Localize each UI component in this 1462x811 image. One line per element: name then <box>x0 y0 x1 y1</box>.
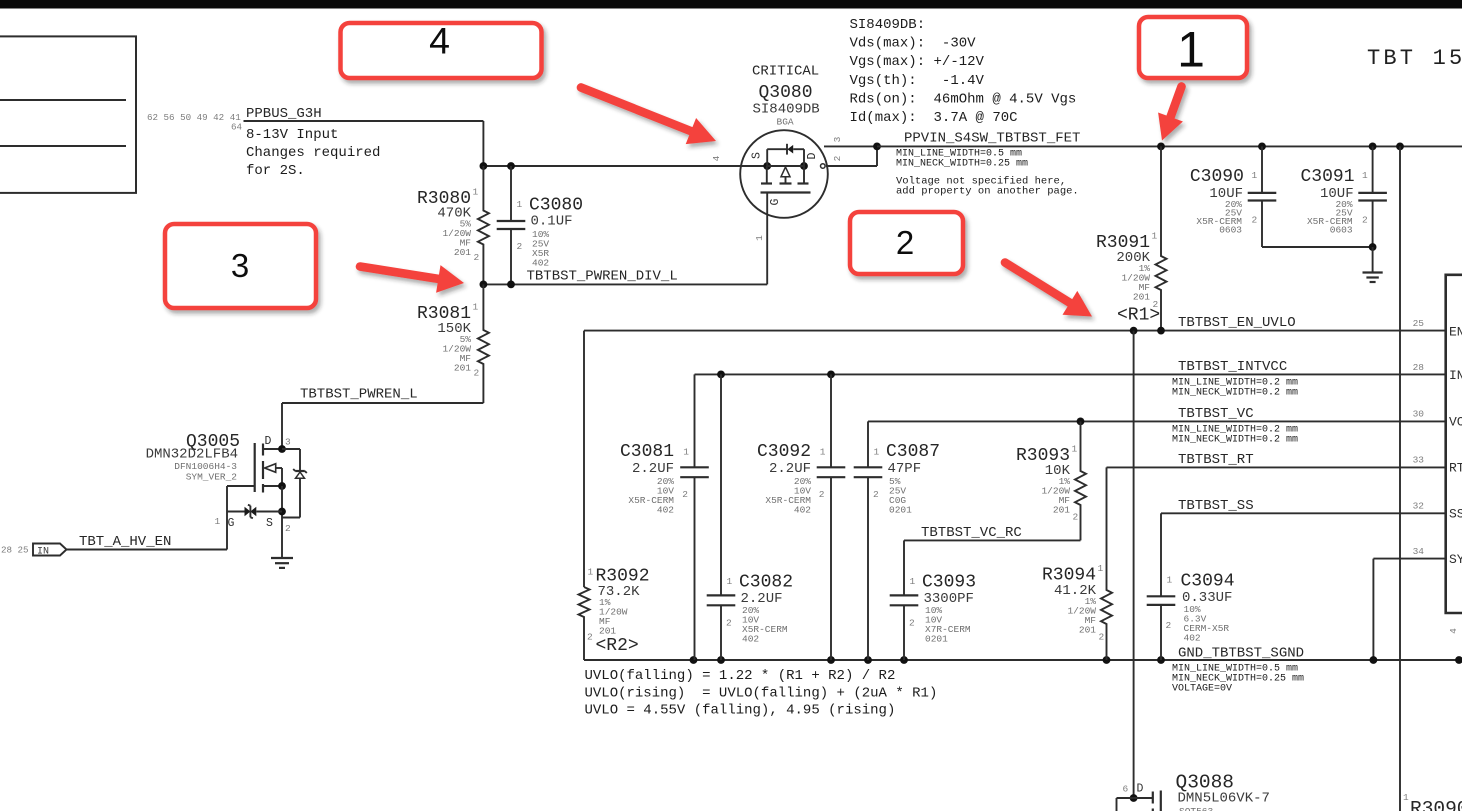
svg-text:PPVIN_S4SW_TBTBST_FET: PPVIN_S4SW_TBTBST_FET <box>904 131 1080 147</box>
junction dot R3091 top <box>1157 143 1165 151</box>
svg-text:2: 2 <box>285 523 291 534</box>
svg-text:2: 2 <box>726 618 732 629</box>
svg-text:1: 1 <box>910 576 916 587</box>
svg-text:2: 2 <box>1099 632 1105 643</box>
connector box J (left, partial) <box>0 36 136 193</box>
wire TBTBST_RT <box>1107 466 1446 468</box>
svg-text:BGA: BGA <box>777 117 794 128</box>
svg-text:D: D <box>806 152 819 159</box>
wire TBTBST_INTVCC <box>695 373 1446 375</box>
svg-text:1: 1 <box>1072 444 1078 455</box>
svg-text:D: D <box>1137 783 1144 796</box>
svg-text:64: 64 <box>231 122 243 133</box>
capacitor C3093 <box>890 540 976 660</box>
svg-text:SI8409DB: SI8409DB <box>753 102 820 118</box>
svg-text:62 56 50 49 42 41: 62 56 50 49 42 41 <box>147 112 241 123</box>
wire TBTBST_SS <box>1161 512 1446 514</box>
svg-text:G: G <box>769 198 782 205</box>
svg-text:25: 25 <box>1413 318 1425 329</box>
wire PPBUS down to PPVIN node <box>482 121 484 166</box>
svg-text:add property on another page.: add property on another page. <box>896 186 1079 198</box>
junction dot C3082 top <box>717 371 725 379</box>
svg-text:TBTBST_INTVCC: TBTBST_INTVCC <box>1178 359 1287 375</box>
svg-text:VC: VC <box>1449 415 1462 430</box>
svg-text:0.1UF: 0.1UF <box>531 214 573 230</box>
transistor Q3005 <box>227 443 286 558</box>
note UVLO formulas <box>585 668 938 719</box>
wire to ground symbol <box>1372 247 1374 273</box>
title bar <box>0 0 1462 9</box>
svg-text:TBTBST_RT: TBTBST_RT <box>1178 452 1254 468</box>
svg-text:2: 2 <box>474 368 480 379</box>
svg-text:1: 1 <box>1403 792 1409 803</box>
net properties PPVIN <box>896 149 1028 170</box>
svg-text:2: 2 <box>832 155 843 161</box>
note voltage not specified <box>896 176 1079 198</box>
svg-text:201: 201 <box>1079 625 1096 636</box>
capacitor C3081 <box>620 374 709 660</box>
svg-text:2.2UF: 2.2UF <box>769 461 811 477</box>
wire EN_UVLO left leg down <box>583 331 585 587</box>
wire EN riser down to Q3088 <box>1133 331 1135 798</box>
svg-text:TBT_A_HV_EN: TBT_A_HV_EN <box>79 534 171 550</box>
svg-text:34: 34 <box>1413 546 1425 557</box>
Q3005 reference labels <box>146 432 291 534</box>
svg-text:402: 402 <box>657 505 674 516</box>
svg-text:402: 402 <box>532 258 549 269</box>
svg-text:CRITICAL: CRITICAL <box>752 64 819 80</box>
junction dots on SGND rail <box>690 656 1462 664</box>
svg-text:Id(max): 3.7A @ 70C: Id(max): 3.7A @ 70C <box>850 110 1018 126</box>
svg-text:Vds(max): -30V: Vds(max): -30V <box>850 36 977 52</box>
svg-text:MIN_NECK_WIDTH=0.2 mm: MIN_NECK_WIDTH=0.2 mm <box>1172 435 1298 446</box>
svg-text:2: 2 <box>896 224 914 261</box>
svg-text:4: 4 <box>711 155 722 161</box>
junction dot PPVIN_S4SW node <box>873 143 881 151</box>
svg-text:R3090: R3090 <box>1410 798 1462 811</box>
svg-text:D: D <box>265 435 272 448</box>
svg-text:0603: 0603 <box>1219 225 1242 236</box>
svg-text:Vgs(max): +/-12V: Vgs(max): +/-12V <box>850 54 985 70</box>
svg-text:SYM_VER_2: SYM_VER_2 <box>186 472 238 483</box>
svg-text:1: 1 <box>588 567 594 578</box>
Q3080 drain pin open circle <box>821 164 826 169</box>
junction dot cap ground node <box>1369 243 1377 251</box>
svg-text:for 2S.: for 2S. <box>246 163 305 179</box>
svg-text:IN: IN <box>37 547 49 558</box>
svg-text:C3093: C3093 <box>922 573 976 593</box>
capacitor C3087 <box>854 421 940 660</box>
svg-text:28: 28 <box>1413 362 1425 373</box>
capacitor C3090 <box>1190 146 1276 247</box>
callout box 2 <box>850 212 963 274</box>
svg-text:UVLO(rising) = UVLO(falling): UVLO(rising) = UVLO(falling) + (2uA * R1… <box>585 686 938 702</box>
junction dot C3092 top <box>827 371 835 379</box>
svg-text:402: 402 <box>794 505 811 516</box>
svg-text:SI8409DB:: SI8409DB: <box>850 17 926 33</box>
svg-text:2: 2 <box>909 618 915 629</box>
svg-text:201: 201 <box>454 363 471 374</box>
svg-text:201: 201 <box>1053 505 1070 516</box>
svg-text:RT: RT <box>1449 461 1462 476</box>
svg-text:1: 1 <box>473 302 479 313</box>
svg-text:PPBUS_G3H: PPBUS_G3H <box>246 106 322 122</box>
svg-text:2: 2 <box>587 632 593 643</box>
capacitor C3080 <box>497 166 583 284</box>
zener gate-source of Q3005 <box>227 505 282 519</box>
svg-text:0201: 0201 <box>889 505 912 516</box>
input port TBT_A_HV_EN <box>1 534 227 558</box>
svg-text:C3092: C3092 <box>757 442 811 462</box>
svg-text:30: 30 <box>1413 409 1425 420</box>
callout arrow 2 <box>1005 263 1092 317</box>
svg-text:4: 4 <box>429 20 450 62</box>
transistor Q3088 (partial at bottom) <box>1117 772 1270 811</box>
svg-text:VOLTAGE=0V: VOLTAGE=0V <box>1172 684 1232 695</box>
wire TBTBST_PWREN_DIV_L <box>483 283 767 285</box>
svg-text:1: 1 <box>473 187 479 198</box>
svg-text:1: 1 <box>820 447 826 458</box>
note SI8409DB specs <box>850 17 1077 126</box>
svg-text:UVLO(falling) = 1.22 * (R1 + R: UVLO(falling) = 1.22 * (R1 + R2) / R2 <box>585 668 896 684</box>
svg-text:2: 2 <box>1166 620 1172 631</box>
svg-text:<R1>: <R1> <box>1117 306 1160 326</box>
svg-text:TBTBST_PWREN_DIV_L: TBTBST_PWREN_DIV_L <box>527 269 678 285</box>
svg-text:0201: 0201 <box>925 634 948 645</box>
net properties SGND <box>1172 664 1304 695</box>
junction dot at R3080 top <box>480 162 488 170</box>
svg-text:32: 32 <box>1413 501 1425 512</box>
svg-text:S: S <box>266 517 273 530</box>
junction dot right riser top <box>1396 143 1404 151</box>
svg-text:C3094: C3094 <box>1181 572 1235 592</box>
wire TBTBST_PWREN_L <box>282 402 483 404</box>
svg-text:MIN_NECK_WIDTH=0.25 mm: MIN_NECK_WIDTH=0.25 mm <box>896 159 1028 170</box>
svg-text:33: 33 <box>1413 455 1425 466</box>
svg-text:2: 2 <box>682 489 688 500</box>
wire PPVIN node horizontal to FET source <box>483 165 767 167</box>
svg-text:Vgs(th): -1.4V: Vgs(th): -1.4V <box>850 73 985 89</box>
svg-text:UVLO = 4.55V (falling), 4.95 (: UVLO = 4.55V (falling), 4.95 (rising) <box>585 703 896 719</box>
svg-text:1: 1 <box>517 199 523 210</box>
svg-text:1: 1 <box>727 576 733 587</box>
body diode of Q3005 <box>282 449 307 518</box>
junction dot C3090 top <box>1258 143 1266 151</box>
svg-text:TBTBST_PWREN_L: TBTBST_PWREN_L <box>300 387 418 403</box>
svg-text:1: 1 <box>1152 231 1158 242</box>
net properties VC <box>1172 425 1298 446</box>
note 8-13V input <box>246 127 380 179</box>
svg-text:47PF: 47PF <box>888 461 922 477</box>
svg-text:3: 3 <box>832 136 843 142</box>
svg-text:201: 201 <box>454 247 471 258</box>
svg-text:1: 1 <box>1177 22 1205 78</box>
resistor R3091 <box>1096 146 1167 330</box>
svg-text:SOT563: SOT563 <box>1179 806 1214 811</box>
junction dot C3080 bottom <box>507 281 515 289</box>
svg-text:402: 402 <box>1184 633 1201 644</box>
svg-text:4: 4 <box>1448 628 1459 634</box>
wire Q3005 drain riser <box>281 403 283 449</box>
svg-text:C3082: C3082 <box>739 573 793 593</box>
callout box 1 <box>1139 17 1247 78</box>
wire TBTBST_VC_RC <box>904 539 1081 541</box>
svg-text:0603: 0603 <box>1330 225 1353 236</box>
ground below Q3005 <box>271 558 293 568</box>
wire drain pin 3 <box>824 145 877 147</box>
svg-text:SY: SY <box>1449 552 1462 567</box>
svg-text:Changes required: Changes required <box>246 145 380 161</box>
wire gate riser of Q3080 <box>766 193 768 285</box>
svg-text:8-13V Input: 8-13V Input <box>246 127 338 143</box>
junction dot at C3080 top <box>507 162 515 170</box>
junction dot R3081 top <box>480 281 488 289</box>
svg-text:S: S <box>751 152 764 159</box>
svg-text:C3087: C3087 <box>886 442 940 462</box>
wire cap bottoms to ground <box>1262 246 1373 248</box>
svg-text:TBTBST_EN_UVLO: TBTBST_EN_UVLO <box>1178 315 1296 331</box>
svg-text:C3091: C3091 <box>1300 167 1354 187</box>
svg-text:2: 2 <box>1073 512 1079 523</box>
resistor R3094 <box>1042 467 1112 660</box>
ground below C3091 <box>1363 273 1383 283</box>
wire TBTBST_EN_UVLO <box>584 330 1446 332</box>
svg-text:2: 2 <box>517 241 523 252</box>
Q3080 reference labels <box>752 64 820 128</box>
svg-text:TBTBST_VC: TBTBST_VC <box>1178 406 1254 422</box>
wire PPVIN_S4SW_TBTBST_FET <box>877 145 1462 147</box>
svg-text:402: 402 <box>742 634 759 645</box>
svg-text:IN: IN <box>1449 368 1462 383</box>
svg-text:28 25: 28 25 <box>1 545 29 556</box>
wire PPBUS_G3H horizontal <box>244 120 484 122</box>
svg-text:201: 201 <box>599 626 616 637</box>
svg-text:GND_TBTBST_SGND: GND_TBTBST_SGND <box>1178 646 1304 662</box>
svg-text:1: 1 <box>754 235 765 241</box>
svg-text:C3080: C3080 <box>529 196 583 216</box>
junction dot C3091 top <box>1369 143 1377 151</box>
resistor R3081 <box>417 284 489 403</box>
callout box 3 <box>165 224 316 308</box>
svg-text:2: 2 <box>1252 215 1258 226</box>
net properties INTVCC <box>1172 378 1298 399</box>
capacitor C3092 <box>757 374 845 660</box>
svg-text:1: 1 <box>1362 170 1368 181</box>
svg-text:Q3080: Q3080 <box>759 83 813 103</box>
svg-text:3: 3 <box>231 247 249 284</box>
wire drain pin 2 <box>826 146 877 166</box>
transistor Q3080 body circle <box>740 130 828 218</box>
svg-text:TBT 150: TBT 150 <box>1367 46 1462 71</box>
wire TBTBST_VC <box>868 420 1446 422</box>
callout arrow 3 <box>360 265 464 293</box>
svg-text:2: 2 <box>474 252 480 263</box>
junction dot EN riser <box>1130 327 1138 335</box>
svg-text:6: 6 <box>1123 784 1129 795</box>
svg-text:EN: EN <box>1449 325 1462 340</box>
svg-text:DFN1006H4-3: DFN1006H4-3 <box>174 461 237 472</box>
callout arrow 4 <box>581 88 716 145</box>
svg-text:C3090: C3090 <box>1190 167 1244 187</box>
svg-text:TBTBST_VC_RC: TBTBST_VC_RC <box>921 525 1022 541</box>
svg-text:TBTBST_SS: TBTBST_SS <box>1178 498 1254 514</box>
svg-text:201: 201 <box>1133 292 1150 303</box>
capacitor C3091 <box>1300 146 1386 247</box>
svg-text:2: 2 <box>873 489 879 500</box>
callout box 4 <box>341 20 542 79</box>
resistor R3090 (partial at bottom right) <box>1403 792 1462 811</box>
svg-text:DMN5L06VK-7: DMN5L06VK-7 <box>1178 791 1270 807</box>
svg-text:2: 2 <box>1362 215 1368 226</box>
svg-text:<R2>: <R2> <box>596 636 639 656</box>
svg-text:2.2UF: 2.2UF <box>632 461 674 477</box>
junction dot R3091 bottom <box>1157 327 1165 335</box>
resistor R3092 <box>579 567 650 661</box>
capacitor C3082 <box>707 374 793 660</box>
wire GND_TBTBST_SGND <box>584 659 1462 661</box>
svg-text:3: 3 <box>285 437 291 448</box>
svg-text:SS: SS <box>1449 507 1462 522</box>
svg-text:2: 2 <box>819 489 825 500</box>
wire right riser x1400 <box>1399 146 1401 811</box>
svg-text:G: G <box>228 517 235 530</box>
capacitor C3094 <box>1147 513 1235 660</box>
transistor Q3080 internals <box>751 144 819 206</box>
svg-text:Rds(on): 46mOhm @ 4.5V Vgs: Rds(on): 46mOhm @ 4.5V Vgs <box>850 92 1077 108</box>
junction dot R3093 top <box>1077 418 1085 426</box>
resistor R3080 <box>417 166 489 284</box>
op-amp U (boost controller IC, partial at right) <box>1413 275 1462 634</box>
svg-text:1: 1 <box>215 516 221 527</box>
svg-text:C3081: C3081 <box>620 442 674 462</box>
svg-text:1: 1 <box>1167 575 1173 586</box>
callout arrow 1 <box>1158 87 1183 141</box>
resistor R3093 <box>1016 421 1086 540</box>
svg-text:1: 1 <box>683 447 689 458</box>
connector pin numbers 62 56 50 49 42 41 / 64 <box>147 112 243 133</box>
svg-text:MIN_NECK_WIDTH=0.2 mm: MIN_NECK_WIDTH=0.2 mm <box>1172 388 1298 399</box>
svg-text:1: 1 <box>1252 170 1258 181</box>
svg-text:1: 1 <box>1098 563 1104 574</box>
svg-text:1: 1 <box>874 447 880 458</box>
wire SYNC pin <box>1373 559 1445 660</box>
